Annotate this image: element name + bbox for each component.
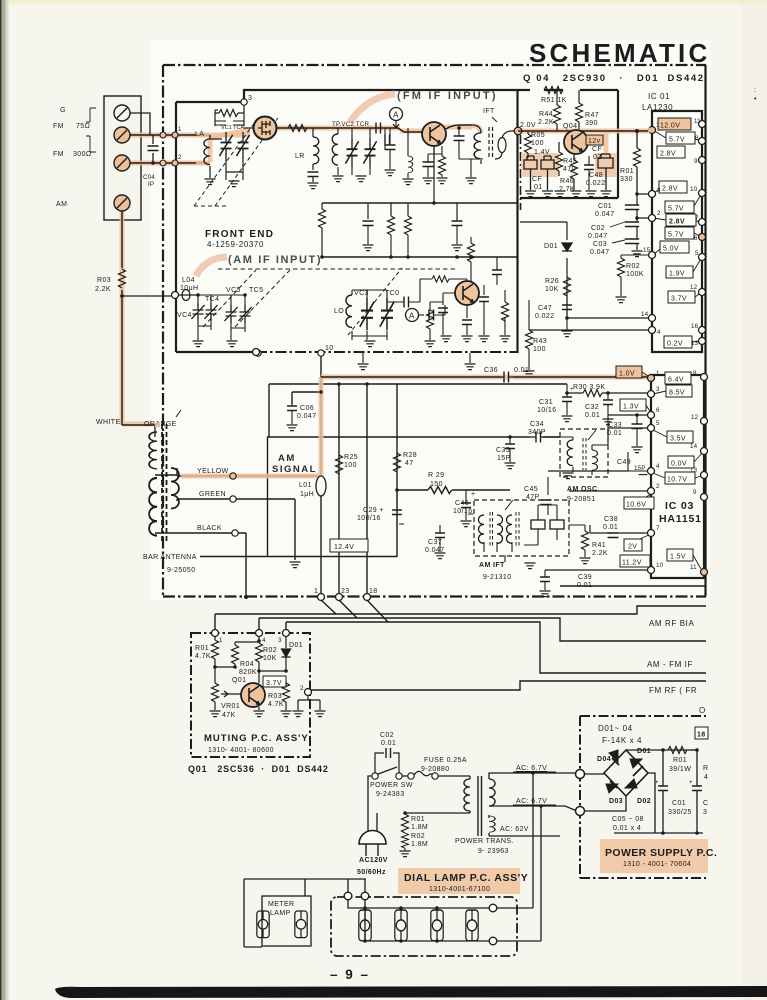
- svg-text:AC: 62V: AC: 62V: [500, 826, 529, 833]
- svg-text:1: 1: [178, 126, 182, 133]
- svg-text:TC5: TC5: [249, 287, 263, 294]
- svg-text:330/25: 330/25: [668, 809, 692, 816]
- svg-text:R: R: [703, 765, 708, 772]
- wire below IC03: [560, 585, 706, 587]
- voltage box 1.5V: [667, 549, 693, 561]
- svg-text:R30 3.9K: R30 3.9K: [573, 384, 605, 391]
- leader lines IC01: [653, 130, 702, 342]
- wire y257 horizontal: [321, 256, 517, 258]
- junction dots mid: [395, 488, 399, 492]
- svg-text:1: 1: [656, 370, 660, 377]
- voltage box 2.8V pin9: [657, 146, 685, 158]
- svg-text:12v: 12v: [588, 138, 601, 145]
- svg-text:02: 02: [593, 154, 602, 161]
- svg-text:1μH: 1μH: [300, 491, 314, 498]
- test point A circle: [390, 108, 403, 121]
- svg-text:330: 330: [620, 176, 633, 183]
- svg-text:9: 9: [694, 158, 698, 165]
- svg-text:2.8V: 2.8V: [662, 186, 678, 193]
- AGC resistor-cap pair above FET: [215, 105, 244, 126]
- voltage box 3.5V: [667, 431, 693, 443]
- wire meter box: [304, 879, 306, 896]
- svg-text:R03: R03: [268, 693, 282, 700]
- wire R28 vertical: [396, 384, 398, 557]
- wire node10 vertical: [320, 353, 322, 377]
- connector node23: [339, 600, 357, 618]
- svg-text:R28: R28: [403, 452, 417, 459]
- svg-text:8: 8: [693, 370, 697, 377]
- svg-text:C03: C03: [593, 241, 607, 248]
- junction dot black-chassis: [244, 595, 248, 599]
- voltage box 1.3V: [620, 399, 646, 411]
- svg-text:R04: R04: [240, 661, 254, 668]
- svg-text:R41: R41: [592, 542, 606, 549]
- wire pin6: [608, 414, 651, 416]
- svg-text:1: 1: [219, 637, 223, 644]
- voltage box 1.9V pin5: [666, 266, 693, 278]
- transistor Q2 FM: [422, 122, 446, 146]
- svg-text:0.2V: 0.2V: [667, 341, 683, 348]
- orange blobs CF filters: [521, 153, 559, 177]
- trimmer VC2: [345, 138, 358, 167]
- muting box dash-dot border: [191, 633, 310, 757]
- svg-text:MUTING P.C. ASS'Y: MUTING P.C. ASS'Y: [204, 733, 309, 744]
- wire AM RF BIAS: [215, 606, 706, 614]
- muting pin 1: [212, 630, 219, 637]
- IC03 right pins: [701, 374, 708, 381]
- svg-text:IFT: IFT: [483, 108, 495, 115]
- svg-text:100: 100: [533, 346, 546, 353]
- meter lamp box: [262, 896, 311, 946]
- svg-text:(AM IF INPUT): (AM IF INPUT): [228, 254, 322, 266]
- orange highlight FM path: [196, 126, 648, 163]
- IF amp box bottom border: [520, 197, 618, 199]
- svg-text:2.2K: 2.2K: [592, 550, 608, 557]
- meter lamp 2: [295, 911, 307, 938]
- trimmer VC4: [191, 303, 204, 321]
- svg-text:10: 10: [656, 562, 664, 569]
- svg-text:A: A: [393, 111, 399, 120]
- svg-text:CF: CF: [592, 146, 602, 153]
- junction node 10: [318, 350, 324, 356]
- svg-text:C39: C39: [578, 574, 592, 581]
- ground green tap: [290, 562, 301, 568]
- svg-text:C34: C34: [530, 421, 544, 428]
- svg-text:C29 +: C29 +: [363, 507, 384, 514]
- svg-text:D02: D02: [637, 798, 651, 805]
- svg-text:•: •: [754, 96, 757, 103]
- voltage box 0.0V: [668, 456, 694, 468]
- terminal block outline: [104, 96, 141, 220]
- svg-text:14: 14: [641, 311, 649, 318]
- dashed gang line AM: [218, 268, 455, 270]
- wires caps to pins: [637, 194, 651, 250]
- wire FET to line: [210, 128, 253, 139]
- wire FM75 screw line: [130, 134, 210, 136]
- svg-text:4: 4: [704, 774, 708, 781]
- svg-text:C45: C45: [524, 486, 538, 493]
- svg-text:(FM IF INPUT): (FM IF INPUT): [397, 90, 498, 102]
- IC01 right pins: [699, 121, 706, 128]
- junction green: [230, 496, 236, 502]
- svg-text:1310 - 4001- 70604: 1310 - 4001- 70604: [623, 861, 691, 868]
- svg-text:5.7V: 5.7V: [669, 137, 685, 144]
- chassis dash-dot left border: [162, 65, 164, 596]
- power supply input circles: [576, 770, 585, 779]
- svg-text:FRONT END: FRONT END: [205, 229, 274, 240]
- svg-text:1.0V: 1.0V: [619, 371, 635, 378]
- voltage box 5.0V pin15: [660, 241, 689, 253]
- grounds VC4 VC5: [198, 321, 245, 340]
- svg-text:D01: D01: [544, 243, 558, 250]
- screw terminal FM300: [114, 155, 130, 171]
- svg-text:AM IFT: AM IFT: [479, 562, 505, 569]
- dial lamp 1: [359, 910, 371, 941]
- svg-text:C38: C38: [604, 516, 618, 523]
- dial lamp buses: [348, 899, 489, 941]
- svg-text:9-21310: 9-21310: [483, 574, 512, 581]
- secondary leads 6.7V: [489, 773, 577, 779]
- svg-text:AM OSC: AM OSC: [567, 486, 597, 493]
- voltage box 2V: [624, 539, 642, 551]
- wires muting mid: [215, 667, 286, 671]
- svg-text:10.6V: 10.6V: [626, 502, 646, 509]
- diode arrows on bridge: [606, 750, 642, 793]
- wire pin7 pin10: [545, 569, 651, 571]
- wire C06 stub: [292, 392, 321, 404]
- front end bottom dash-dot border: [256, 351, 518, 353]
- resistor right Q3: [502, 302, 509, 321]
- wire white to antenna: [122, 424, 155, 426]
- svg-text:7: 7: [656, 525, 660, 532]
- svg-text:L01: L01: [299, 482, 312, 489]
- svg-text:+: +: [570, 386, 574, 393]
- chassis dash-dot top border: [163, 64, 706, 66]
- voltage box 1.0V orange: [616, 366, 642, 378]
- svg-text:D04: D04: [597, 756, 611, 763]
- svg-text:3: 3: [656, 386, 660, 393]
- svg-text:WHITE: WHITE: [96, 419, 121, 426]
- svg-text:ORANGE: ORANGE: [144, 421, 177, 428]
- coil LO: [346, 295, 352, 327]
- svg-text:FUSE 0.25A: FUSE 0.25A: [424, 757, 467, 764]
- svg-text:9-20851: 9-20851: [567, 496, 596, 503]
- svg-text:4: 4: [657, 329, 661, 336]
- power supply dash-dot border: [580, 716, 706, 878]
- svg-text:10: 10: [690, 186, 698, 193]
- trimmer TC5: [238, 305, 251, 323]
- svg-text:5.7V: 5.7V: [668, 206, 684, 213]
- screw terminal AM: [114, 195, 130, 211]
- series cap FM line: [376, 123, 381, 134]
- orange swoosh AM IF INPUT: [196, 257, 227, 276]
- svg-text:5.0V: 5.0V: [663, 246, 679, 253]
- resistor R cut right: [690, 749, 697, 751]
- svg-text:10K: 10K: [545, 286, 559, 293]
- trimmer TCA: [236, 132, 249, 159]
- grounds muting: [210, 711, 221, 717]
- dial lamp connector circles: [344, 892, 352, 900]
- svg-text:100: 100: [344, 462, 357, 469]
- svg-text:15: 15: [643, 247, 651, 254]
- svg-text:Q 04 2SC930 · D01 DS442: Q 04 2SC930 · D01 DS442: [523, 73, 705, 84]
- svg-text:POWER SW: POWER SW: [370, 782, 413, 789]
- svg-text:SCHEMATIC: SCHEMATIC: [529, 38, 710, 68]
- svg-text:POWER TRANS.: POWER TRANS.: [455, 838, 514, 845]
- svg-text:2V: 2V: [628, 544, 637, 551]
- svg-text:C04: C04: [143, 174, 155, 181]
- arrow AM OSC: [588, 430, 596, 440]
- svg-text:300Ω: 300Ω: [73, 151, 92, 158]
- resistor mid row 1: [388, 216, 395, 235]
- svg-text:DIAL LAMP P.C. ASS'Y: DIAL LAMP P.C. ASS'Y: [404, 872, 528, 884]
- junction node 1 bottom: [318, 594, 325, 601]
- svg-text:TC4: TC4: [205, 296, 219, 303]
- resistor R01 39/1W: [668, 747, 687, 754]
- transistor Q3 AM converter: [455, 281, 479, 305]
- svg-text:+: +: [689, 779, 693, 786]
- svg-text:10.7V: 10.7V: [667, 477, 687, 484]
- svg-text:C48: C48: [589, 172, 603, 179]
- svg-text:C47: C47: [538, 305, 552, 312]
- voltage box 2.8V pin7 bold: [666, 214, 696, 226]
- caps under Q3: [443, 285, 484, 318]
- svg-text:Q01: Q01: [232, 677, 246, 684]
- svg-text:R02: R02: [263, 647, 277, 654]
- svg-text:1310- 4001- 80600: 1310- 4001- 80600: [208, 747, 274, 754]
- IF board dash-dot boundary: [520, 135, 522, 210]
- grounds mid row: [363, 245, 374, 251]
- muting pin drops: [215, 614, 286, 630]
- dial lamp dash-dot box: [331, 897, 517, 956]
- svg-text:3: 3: [278, 637, 282, 644]
- svg-text:C: C: [703, 800, 708, 807]
- svg-text:8.5V: 8.5V: [669, 390, 685, 397]
- svg-text:R01: R01: [411, 816, 425, 823]
- svg-text:9- 23963: 9- 23963: [478, 848, 509, 855]
- bottom scan shadow bar: [55, 986, 767, 998]
- svg-text:50/60Hz: 50/60Hz: [357, 869, 386, 876]
- ground mid: [358, 364, 369, 370]
- voltage box 12.0V: [658, 118, 691, 130]
- resistor mid row 2: [405, 216, 412, 235]
- wire x269 vertical: [268, 384, 270, 437]
- svg-text:– 9 –: – 9 –: [330, 967, 370, 982]
- svg-text:C02: C02: [380, 732, 394, 739]
- wire x267 vertical: [267, 437, 269, 556]
- resistor R01 330: [636, 131, 638, 194]
- svg-text:D03: D03: [609, 798, 623, 805]
- muting pin 4: [256, 630, 263, 637]
- AM OSC transformer: [567, 440, 573, 466]
- node 3 circle: [241, 99, 247, 105]
- cap below A point: [385, 145, 396, 150]
- svg-text:AM: AM: [278, 453, 296, 464]
- voltage box 3.7V pin12: [668, 291, 695, 303]
- voltage box 5.7V pin6: [665, 227, 694, 239]
- resistor under Q3 left: [427, 310, 434, 329]
- wire FM300 screw line: [130, 162, 210, 164]
- voltage box 8.5V: [666, 385, 692, 397]
- svg-text:C49: C49: [617, 459, 631, 466]
- wire 18 vertical: [366, 384, 368, 597]
- svg-text:5.7V: 5.7V: [668, 232, 684, 239]
- svg-text:1.3V: 1.3V: [623, 404, 639, 411]
- svg-text:R02: R02: [626, 263, 640, 270]
- svg-text:2.8V: 2.8V: [660, 151, 676, 158]
- AM OSC dashed box: [560, 429, 608, 477]
- junction terminals 1 and 2: [160, 132, 166, 138]
- svg-text:6: 6: [694, 235, 698, 242]
- svg-text:3: 3: [657, 187, 661, 194]
- svg-text:LO: LO: [334, 308, 344, 315]
- voltage box 10.7V: [665, 472, 695, 484]
- resistor under Q2: [439, 156, 446, 175]
- svg-text:3.5V: 3.5V: [670, 436, 686, 443]
- svg-text:2: 2: [178, 154, 182, 161]
- wire G screw to top: [130, 113, 150, 135]
- svg-text:6: 6: [656, 407, 660, 414]
- svg-text:Q04: Q04: [563, 123, 577, 130]
- svg-text:C02: C02: [591, 225, 605, 232]
- secondary lead 62V: [489, 815, 560, 836]
- dial lamp 3: [431, 910, 443, 941]
- voltage box 3.7V muting: [263, 676, 286, 687]
- svg-text:12.4V: 12.4V: [334, 544, 354, 551]
- svg-text:0.01 x 4: 0.01 x 4: [613, 825, 641, 832]
- grounds TP cluster: [338, 166, 370, 175]
- svg-text:+: +: [471, 491, 476, 498]
- svg-text:100/16: 100/16: [357, 515, 381, 522]
- svg-text:2.0V: 2.0V: [520, 122, 536, 129]
- svg-text:G: G: [60, 107, 66, 114]
- svg-text:0.0V: 0.0V: [671, 461, 687, 468]
- svg-text:GREEN: GREEN: [199, 491, 226, 498]
- svg-text:9-25050: 9-25050: [167, 567, 196, 574]
- svg-text:AM - FM IF: AM - FM IF: [647, 660, 693, 669]
- svg-text:15P: 15P: [497, 455, 511, 462]
- power switch: [372, 773, 378, 779]
- FET Q01 front end: [254, 117, 277, 140]
- dashed gang VC3: [348, 268, 402, 335]
- svg-text:10K: 10K: [263, 655, 277, 662]
- node 2.0V orange: [514, 127, 522, 135]
- AM IFT transformer1: [478, 515, 484, 543]
- grounds under Q2: [423, 178, 434, 184]
- svg-text:C06: C06: [300, 405, 314, 412]
- svg-text:3: 3: [703, 809, 707, 816]
- dial lamp 2: [395, 910, 407, 941]
- svg-text:23: 23: [341, 588, 350, 595]
- svg-text:0.01: 0.01: [514, 367, 529, 374]
- trimmer TC0: [380, 298, 394, 330]
- svg-text:14: 14: [690, 443, 698, 450]
- label 18 box cut: [695, 727, 708, 739]
- svg-text:R03: R03: [97, 277, 111, 284]
- svg-text:4-1259-20370: 4-1259-20370: [207, 240, 264, 249]
- trimmer TC4: [204, 303, 217, 321]
- AM IFT transformer2: [506, 515, 512, 543]
- cap mid row right: [452, 221, 463, 226]
- svg-text:13: 13: [691, 340, 699, 347]
- svg-text:IC 01: IC 01: [648, 92, 670, 101]
- svg-text:R51 1K: R51 1K: [541, 97, 567, 104]
- voltage box 2.8V pin3: [659, 181, 687, 193]
- top page edge strip: [0, 0, 767, 4]
- ceramic filter CF01: [524, 156, 554, 190]
- series cap AM conv: [404, 297, 409, 308]
- svg-text:5: 5: [656, 420, 660, 427]
- svg-text:D01: D01: [637, 748, 651, 755]
- svg-text:C05 ~ 08: C05 ~ 08: [612, 816, 644, 823]
- svg-text:R01: R01: [195, 645, 209, 652]
- cap before IFT: [454, 136, 465, 141]
- bridge wires: [585, 750, 703, 833]
- svg-text:18: 18: [697, 732, 706, 739]
- wire node to R05: [518, 130, 648, 132]
- svg-text:F-14K x 4: F-14K x 4: [602, 736, 642, 745]
- junction node 18 bottom: [364, 594, 371, 601]
- svg-text:METER: METER: [268, 901, 295, 908]
- svg-text:AM RF BIA: AM RF BIA: [649, 619, 694, 628]
- muting pin 2: [305, 689, 312, 696]
- wire pin4: [548, 470, 628, 472]
- wire lamp feed left drop: [244, 879, 262, 947]
- test point A2: [406, 309, 419, 322]
- svg-text:2.2K: 2.2K: [538, 119, 554, 126]
- wire lamp feed top: [244, 878, 366, 880]
- trimmer VC5: [224, 305, 237, 323]
- svg-text:R47: R47: [585, 112, 599, 119]
- svg-text:BAR ANTENNA: BAR ANTENNA: [143, 554, 197, 561]
- svg-text:R05: R05: [531, 132, 545, 139]
- ceramic filter CF02: [598, 154, 613, 190]
- bias resistor top Q3: [432, 276, 449, 282]
- svg-text:Q01 2SC536 · D01 DS442: Q01 2SC536 · D01 DS442: [188, 764, 329, 774]
- screw terminal G: [114, 105, 130, 121]
- svg-text:O: O: [699, 706, 706, 715]
- svg-text:R44: R44: [539, 111, 553, 118]
- svg-text:820K: 820K: [239, 669, 257, 676]
- transistor Q01 muting: [241, 683, 265, 707]
- svg-text:3.7V: 3.7V: [671, 296, 687, 303]
- svg-text:C36: C36: [484, 367, 498, 374]
- coil under Q2 base: [408, 156, 413, 173]
- svg-text:VC1 TCA: VC1 TCA: [221, 125, 244, 131]
- grounds under Q3: [425, 341, 436, 347]
- cap TP right: [385, 135, 390, 146]
- svg-text:+: +: [655, 779, 659, 786]
- svg-text:D01~ 04: D01~ 04: [598, 724, 633, 733]
- voltage box 11.2V: [620, 555, 650, 567]
- svg-text:0.047: 0.047: [590, 249, 610, 256]
- svg-text:100: 100: [531, 140, 544, 147]
- trimmer TCR: [363, 138, 376, 167]
- antenna secondary coil: [171, 468, 179, 509]
- ground LA: [209, 170, 211, 178]
- antenna primary coil: [154, 425, 156, 437]
- svg-text:1.9V: 1.9V: [669, 271, 685, 278]
- coil LR: [313, 137, 319, 164]
- svg-text:4: 4: [656, 463, 660, 470]
- svg-text:12: 12: [691, 414, 699, 421]
- svg-text:10/16: 10/16: [537, 407, 557, 414]
- wire y556 horizontal: [200, 556, 397, 558]
- resistor on x322: [321, 203, 323, 257]
- wire AM signal vertical: [320, 377, 322, 597]
- svg-text:0.047: 0.047: [297, 413, 317, 420]
- svg-text:D01: D01: [289, 642, 303, 649]
